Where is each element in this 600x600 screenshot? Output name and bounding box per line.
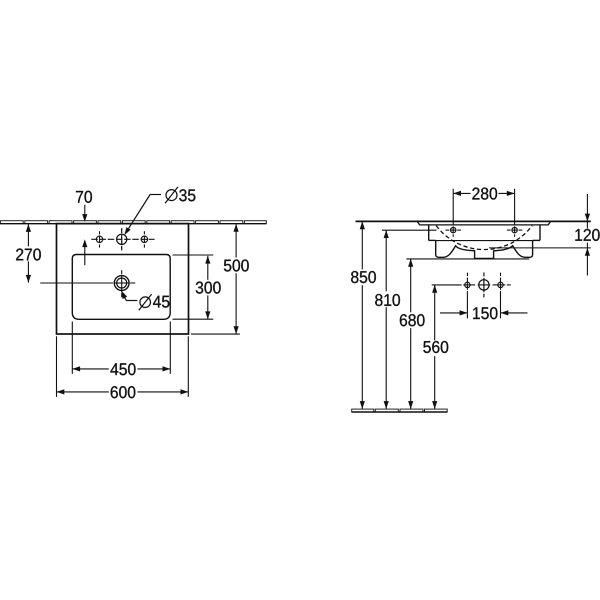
wall line (left view)	[0, 223, 267, 225]
dim text 120	[575, 229, 599, 241]
basin body sides	[429, 225, 540, 241]
dim text 680	[400, 314, 425, 326]
dimension 280	[452, 189, 454, 225]
hidden bowl dashed arc	[436, 226, 532, 250]
dim text 150	[473, 307, 497, 319]
300 extension lines	[173, 254, 214, 256]
dim text 850	[351, 271, 376, 283]
trap hole left	[463, 273, 475, 290]
560 extension line	[432, 284, 462, 286]
dim text 70	[76, 191, 92, 203]
trap hole right	[493, 273, 511, 290]
dimension 560	[432, 285, 437, 409]
drain O45	[114, 270, 135, 297]
450 extension lines	[71, 322, 73, 374]
dimension 120	[585, 194, 590, 276]
top reference line	[356, 220, 591, 222]
dimension 450	[72, 366, 170, 371]
dim text 500	[224, 259, 249, 271]
500 bottom extension line	[191, 333, 240, 335]
dimension 600	[57, 389, 189, 394]
dimension 810	[384, 230, 389, 409]
dim text 810	[375, 294, 400, 306]
basin underside profile (feet + drain box)	[436, 240, 533, 258]
dimension 300	[205, 256, 210, 319]
wall tile band (left view)	[0, 221, 266, 224]
dim text 560	[423, 341, 448, 353]
label O35 with leader	[129, 187, 178, 229]
dim text 450	[110, 363, 135, 375]
rim slab	[417, 221, 550, 225]
dimension 680	[408, 259, 413, 409]
dimension 150	[466, 291, 468, 318]
dim text 270	[16, 248, 41, 260]
tap hole left	[96, 231, 102, 247]
fixing bolt hole right	[507, 226, 522, 237]
dim text 35	[179, 189, 195, 201]
dimension 70	[82, 205, 87, 266]
tap hole right	[141, 231, 147, 247]
270/drain extension line	[40, 282, 113, 284]
basin outer rectangle	[57, 224, 189, 334]
dimension 270	[26, 224, 31, 283]
label O45 with leader	[125, 294, 152, 310]
600 extension lines	[56, 336, 58, 397]
dim text 600	[111, 386, 136, 398]
tap hole center (O35)	[117, 228, 127, 250]
dim text 280	[472, 188, 497, 200]
680 extension line	[406, 258, 529, 260]
dimension 850	[360, 221, 365, 409]
trap outlet center	[478, 273, 491, 298]
inner bowl rounded rectangle	[72, 255, 170, 320]
dim text 300	[196, 282, 221, 294]
120 extension line	[489, 247, 591, 249]
810 extension line	[382, 229, 437, 231]
floor band	[352, 409, 448, 412]
fixing bolt hole left	[446, 226, 461, 237]
dim text 45	[153, 296, 169, 308]
tap hole centerline	[91, 238, 154, 240]
dimension 500	[234, 224, 239, 334]
